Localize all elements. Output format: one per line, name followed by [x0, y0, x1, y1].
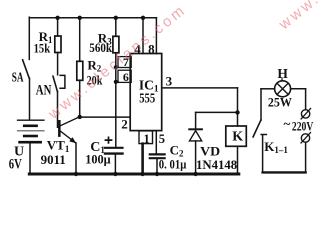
- svg-text:3: 3: [166, 73, 173, 88]
- wire pin 8 to supply: [155, 18, 157, 54]
- lamp H circle: [275, 81, 291, 97]
- wire top supply rail: [29, 17, 156, 19]
- svg-text:555: 555: [139, 90, 155, 105]
- svg-text:6: 6: [123, 70, 129, 84]
- pin 7 box: [118, 57, 131, 68]
- svg-text:25W: 25W: [268, 94, 292, 109]
- pin 1 box: [139, 131, 153, 144]
- wire lamp right down to top terminal: [305, 89, 307, 110]
- svg-text:15k: 15k: [34, 41, 51, 56]
- relay K box: [226, 126, 247, 146]
- wire bottom of mains loop: [263, 171, 306, 173]
- wire AN to base of VT1: [57, 91, 60, 127]
- svg-text:~: ~: [284, 116, 291, 131]
- svg-text:220V: 220V: [292, 119, 314, 134]
- wire pin 3 output: [162, 87, 238, 89]
- wire R1 top: [57, 18, 59, 36]
- diode VD triangle: [190, 131, 202, 141]
- node dot pin7 tap: [114, 65, 118, 69]
- wire R2 top: [79, 18, 81, 62]
- wire diode top: [195, 112, 197, 129]
- terminal bottom phi: [301, 134, 309, 142]
- pin 6 box: [118, 70, 131, 82]
- wire output down to relay K: [237, 88, 239, 126]
- svg-text:AN: AN: [36, 82, 52, 98]
- wire bottom ground rail: [29, 173, 239, 176]
- wire C1 bottom to ground rail: [114, 155, 116, 174]
- wire relay K to ground rail: [237, 146, 239, 174]
- wire diode anode to ground rail: [195, 141, 197, 174]
- wire R2 bottom to collector node: [79, 80, 81, 117]
- wire pin 1 to ground rail: [141, 144, 144, 174]
- svg-text:2: 2: [121, 117, 128, 132]
- node dot diode tap: [235, 110, 239, 114]
- wire R3 top: [115, 18, 117, 37]
- wire trigger node to pin 2: [80, 116, 131, 118]
- svg-text:1N4148: 1N4148: [196, 158, 237, 172]
- svg-text:K1–1: K1–1: [264, 139, 288, 155]
- svg-text:100μ: 100μ: [85, 152, 111, 167]
- capacitor C2 plates: [150, 153, 165, 155]
- transistor VT1 emitter lead: [61, 131, 76, 143]
- transistor VT1 collector lead: [61, 117, 80, 126]
- resistor R3 body: [113, 36, 119, 53]
- wire C2 bottom to ground rail: [156, 159, 158, 174]
- node dots ground rail: [74, 172, 78, 176]
- lamp H stub: [281, 78, 283, 81]
- svg-text:K: K: [232, 129, 243, 144]
- node dot pin6 tap: [114, 80, 118, 84]
- wire node to pin 6: [116, 81, 118, 83]
- transistor VT1 base bar: [58, 120, 61, 137]
- wire battery bottom to ground rail: [29, 143, 31, 174]
- svg-text:SA: SA: [12, 71, 24, 86]
- wire mains bottom terminal down: [305, 143, 307, 173]
- node dots top rail: [55, 16, 239, 177]
- IC1 555 timer box: [130, 54, 162, 131]
- wire pin 5 to C2: [155, 131, 157, 154]
- lamp H cross: [277, 83, 288, 94]
- diode VD cathode bar: [189, 128, 202, 130]
- pushbutton AN blade: [53, 76, 57, 91]
- svg-text:0. 01μ: 0. 01μ: [159, 158, 187, 172]
- wire SA to battery top: [29, 78, 31, 119]
- wire lamp left: [261, 88, 275, 90]
- relay contact K1-1 blade: [253, 120, 261, 137]
- battery U plates: [18, 120, 45, 142]
- svg-text:C2: C2: [170, 143, 184, 159]
- wire R3 bottom to C1 (threshold node): [115, 53, 117, 147]
- svg-text:6V: 6V: [9, 157, 22, 173]
- label C1 plus: [105, 137, 113, 144]
- svg-text:5: 5: [159, 132, 165, 146]
- wire R1 bottom to AN: [57, 53, 59, 75]
- pushbutton AN cap bracket: [60, 75, 65, 88]
- svg-text:1: 1: [144, 132, 150, 146]
- svg-text:9011: 9011: [41, 152, 66, 167]
- terminal top phi: [301, 110, 309, 118]
- wire pin 4 to supply: [142, 18, 144, 54]
- wire node to pin 7: [116, 66, 118, 68]
- resistor R2 body: [77, 61, 83, 80]
- resistor R1 body: [55, 36, 61, 53]
- wire diode node to relay line: [196, 111, 238, 113]
- wire left frame upper (to SA): [28, 17, 30, 59]
- svg-text:H: H: [277, 66, 288, 81]
- wire lamp left branch down to contact: [260, 89, 262, 120]
- wire lamp right: [291, 88, 306, 90]
- switch SA blade: [23, 60, 30, 79]
- relay contact K1-1 fixed terminal: [261, 135, 266, 173]
- svg-text:www.elecfans.com: www.elecfans.com: [275, 0, 324, 34]
- svg-text:VD: VD: [200, 143, 220, 158]
- svg-text:560k: 560k: [89, 40, 112, 55]
- capacitor C1 plates: [105, 147, 123, 149]
- node dot collector/trigger: [78, 115, 82, 119]
- wire emitter to ground rail: [75, 143, 77, 174]
- transistor VT1 emitter arrow: [69, 137, 76, 143]
